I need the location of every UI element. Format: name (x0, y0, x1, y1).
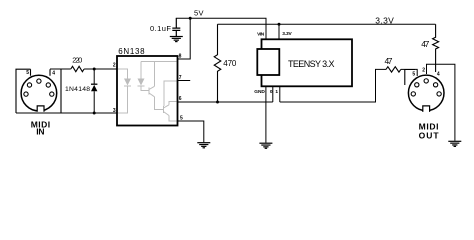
net 3.3V rail (218, 23, 436, 25)
svg-text:IN: IN (36, 127, 44, 137)
wire Teensy pin1 to R3 (280, 69, 386, 102)
wire MIDI IN bottom / pin3 net (16, 112, 117, 114)
resistor R3 47 horizontal (386, 67, 401, 72)
MIDI OUT connector J2 body (405, 70, 415, 86)
svg-text:GND: GND (254, 89, 265, 95)
wire U1 pin8 to 5V rail (178, 18, 190, 59)
MIDI OUT pin holes (411, 79, 441, 96)
wire U1 pin6 to Teensy pin0 (178, 101, 273, 103)
wire R3 to MIDI OUT pin5 (401, 69, 417, 76)
resistor R1 220 (71, 66, 84, 71)
svg-text:8: 8 (179, 53, 182, 59)
svg-text:OUT: OUT (419, 130, 440, 140)
U1 internals (gray) (118, 62, 177, 122)
MIDI IN key notch (37, 106, 44, 112)
svg-text:47: 47 (385, 56, 393, 66)
MIDI IN pin holes (24, 79, 54, 96)
MIDI IN DIN circle (21, 75, 57, 111)
svg-text:2: 2 (113, 63, 116, 69)
svg-text:0: 0 (270, 89, 273, 95)
svg-text:VIN: VIN (257, 31, 265, 37)
node R2 bottom junction (216, 101, 219, 104)
svg-text:5V: 5V (194, 8, 204, 17)
node diode top junction (93, 68, 96, 71)
node 5V junction (189, 17, 192, 20)
MIDI OUT key notch (423, 106, 430, 112)
ground symbol Teensy GND (259, 143, 272, 148)
diode D1 1N4148 (91, 83, 97, 85)
resistor R4 47 vertical (433, 24, 439, 72)
wire MIDI IN pin4 to R1 (50, 68, 71, 70)
svg-text:2: 2 (422, 68, 425, 74)
ground symbol MIDI OUT (448, 141, 461, 146)
MIDI OUT DIN circle (408, 75, 444, 111)
svg-text:6: 6 (179, 96, 182, 102)
svg-text:470: 470 (223, 59, 237, 68)
svg-text:0.1uF: 0.1uF (150, 24, 171, 33)
wire diode vertical (93, 69, 95, 113)
wire MIDI OUT pin2 to ground (427, 64, 455, 141)
svg-text:6N138: 6N138 (118, 47, 145, 56)
wire U1 pin5 to ground (178, 121, 204, 142)
capacitor C1 0.1uF (172, 18, 180, 36)
Teensy USB connector box (257, 49, 279, 75)
svg-text:4: 4 (52, 71, 55, 77)
svg-text:47: 47 (421, 39, 429, 49)
ground symbol U1 pin5 (197, 143, 210, 148)
svg-text:4: 4 (437, 72, 440, 78)
Teensy pin 3.3V stub (278, 24, 280, 39)
optocoupler U1 6N138 box (117, 56, 178, 126)
svg-text:1N4148: 1N4148 (65, 86, 90, 93)
svg-text:3.3V: 3.3V (375, 15, 394, 25)
svg-text:1: 1 (275, 89, 278, 95)
Teensy pin 1 stub (279, 87, 281, 103)
node 3.3V junction (278, 23, 281, 26)
Teensy U2 box (262, 39, 353, 86)
wire U1 pin7 stub (178, 80, 190, 82)
wire R1 to 6N138 pin2 (84, 68, 117, 70)
svg-text:TEENSY 3.X: TEENSY 3.X (288, 59, 335, 69)
net 5V rail (176, 18, 266, 40)
svg-text:3.3V: 3.3V (282, 31, 292, 37)
svg-text:5: 5 (26, 70, 29, 76)
svg-text:3: 3 (113, 108, 116, 114)
node diode bottom junction (93, 112, 96, 115)
svg-text:220: 220 (72, 55, 82, 64)
ground symbol C1 (170, 37, 183, 42)
svg-text:5: 5 (412, 72, 415, 78)
Teensy pin 0 stub (272, 87, 274, 103)
Teensy pin VIN stub (265, 18, 267, 39)
MIDI IN connector J1 body (16, 69, 61, 113)
resistor R2 470 vertical (214, 24, 221, 102)
Teensy pin GND stub and wire to ground (265, 87, 267, 143)
